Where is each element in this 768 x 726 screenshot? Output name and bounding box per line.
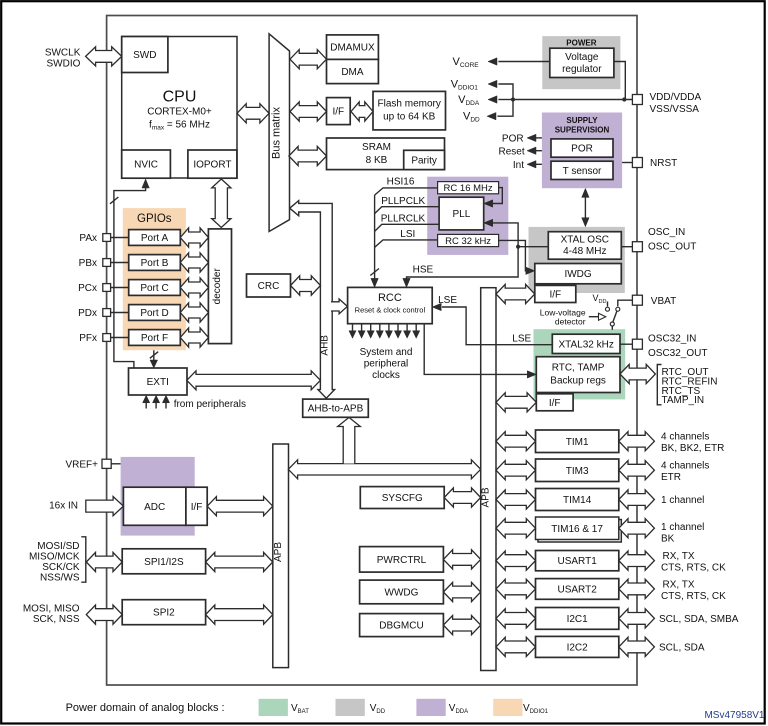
svg-text:up to 64 KB: up to 64 KB [383, 112, 436, 123]
svg-text:PLL: PLL [453, 209, 471, 220]
switch common contact [610, 322, 614, 326]
block XTAL32 kHz [552, 334, 620, 353]
block RCC [348, 287, 433, 323]
svg-text:I2C1: I2C1 [567, 614, 589, 625]
block TIM14 [536, 489, 619, 511]
svg-text:CTS, RTS, CK: CTS, RTS, CK [661, 591, 726, 602]
arrow into EXTI [150, 360, 158, 368]
arrow SPI1 to APB [206, 552, 273, 571]
svg-text:OSC32_OUT: OSC32_OUT [648, 348, 707, 359]
wire PAx pin [110, 237, 128, 239]
svg-text:SPI2: SPI2 [153, 608, 175, 619]
block PLL [439, 197, 484, 230]
arrow VDDIO1 [488, 80, 497, 87]
block XTAL OSC [548, 232, 621, 260]
text RCC [355, 292, 426, 315]
text GPIOs [137, 213, 172, 225]
block NVIC [122, 150, 171, 178]
wire VDD/VDDA pin rail [513, 99, 632, 101]
svg-text:TIM3: TIM3 [566, 466, 589, 477]
text CPU [147, 89, 212, 132]
arrow APB to TIM14 [496, 490, 536, 509]
svg-text:Bus matrix: Bus matrix [271, 107, 283, 159]
wire VDDIO1 branch [498, 84, 513, 100]
arrow RTC pins [620, 364, 655, 383]
text VREF+ [65, 459, 98, 470]
block DBGMCU [360, 614, 444, 637]
text decoder [212, 268, 223, 305]
arrow Reset out [527, 147, 536, 154]
block RC 32 kHz [438, 234, 499, 247]
svg-text:LSE: LSE [438, 295, 457, 306]
text VDD/VDDA pin [650, 92, 702, 115]
slash PortF EXTI [150, 352, 158, 359]
APB label left [273, 542, 284, 562]
slash clock bus [370, 269, 379, 276]
svg-text:VREF+: VREF+ [65, 459, 98, 470]
text Int label [513, 160, 524, 171]
wire PortF to EXTI [153, 350, 155, 361]
svg-text:Power domain of analog blocks: Power domain of analog blocks : [66, 702, 225, 714]
svg-text:SWDIO: SWDIO [47, 59, 81, 70]
text XTAL OSC [561, 235, 609, 258]
pin square OSC32 [632, 339, 642, 349]
svg-text:T sensor: T sensor [563, 166, 602, 177]
text TIM1 pins [661, 432, 724, 455]
VDDA domain supply supervision background [542, 113, 622, 189]
wire RC32 to IWDG [499, 240, 528, 270]
slash EXTI NVIC [110, 197, 118, 204]
svg-text:USART2: USART2 [558, 584, 598, 595]
svg-text:PLLRCLK: PLLRCLK [381, 213, 426, 224]
pin square VDD/VDDA [632, 95, 642, 105]
block PWRCTRL [360, 547, 444, 573]
arrow port 4 to decoder [180, 328, 208, 347]
svg-text:I/F: I/F [191, 502, 203, 513]
pin square NRST [632, 158, 642, 168]
svg-text:DBGMCU: DBGMCU [379, 621, 423, 632]
svg-text:MOSI/SD: MOSI/SD [37, 541, 79, 552]
arrow port 2 to decoder [180, 278, 208, 297]
legend VDD label [370, 703, 386, 715]
block SYSCFG [360, 487, 444, 509]
svg-text:AHB: AHB [320, 335, 331, 356]
text MSv47958V1 [704, 710, 764, 721]
wire HSI16 [375, 188, 438, 195]
pin square PDx [103, 309, 111, 317]
text POWER [566, 39, 596, 48]
chip boundary [107, 16, 637, 686]
svg-text:regulator: regulator [562, 64, 602, 75]
svg-text:IWDG: IWDG [564, 269, 591, 280]
svg-text:CORTEX-M0+: CORTEX-M0+ [147, 107, 212, 118]
legend VBAT label [291, 703, 309, 715]
wire HSE vertical [407, 223, 519, 279]
junction dot regulator rail [622, 97, 626, 101]
svg-text:I/F: I/F [549, 398, 561, 409]
wire OSC32 pin [620, 343, 632, 345]
block Port F [129, 330, 181, 346]
pin square VREF+ [102, 459, 111, 468]
text SUPPLY SUPERVISION [555, 116, 610, 135]
text Vcore [453, 56, 480, 69]
svg-text:1 channel: 1 channel [661, 522, 704, 533]
VDDIO1 domain GPIOs background [123, 208, 186, 350]
arrow bus to DMAMUX [290, 50, 327, 69]
wire PLLRCLK [375, 224, 440, 231]
svg-text:SYSCFG: SYSCFG [382, 493, 423, 504]
svg-text:VBAT: VBAT [651, 296, 676, 307]
wire VDD branch [497, 100, 513, 117]
svg-text:4-48 MHz: 4-48 MHz [563, 246, 606, 257]
arrow HSE into RCC [403, 278, 410, 287]
arrow IOPORT to decoder [212, 179, 231, 228]
text OSC32 pin [648, 334, 707, 360]
text TIM16 pins [661, 522, 704, 545]
block flash I/F [327, 98, 351, 125]
arrow HSE to PLL [484, 219, 493, 226]
block SRAM [327, 138, 445, 170]
block IWDG I/F [535, 285, 576, 302]
wire Int out [536, 163, 542, 165]
svg-text:POR: POR [502, 133, 524, 144]
arrow APB link to AHB-to-APB [338, 417, 361, 463]
arrow APB to IWDG I/F [496, 284, 535, 303]
legend VDDA label [449, 703, 468, 715]
wire PBx pin [110, 262, 128, 264]
svg-text:AHB-to-APB: AHB-to-APB [308, 404, 364, 415]
svg-text:SCL, SDA: SCL, SDA [659, 642, 705, 653]
svg-text:APB: APB [481, 487, 492, 507]
block ADC I/F [186, 487, 207, 525]
arrow APB to TIM3 [496, 461, 536, 480]
block decoder [208, 229, 231, 344]
wire XTAL OSC out [518, 246, 548, 248]
text HSE [413, 265, 434, 276]
pin square PFx [103, 334, 111, 342]
text SRAM [362, 142, 391, 166]
svg-text:PCx: PCx [78, 283, 97, 294]
arrow APB to I2C1 [496, 609, 536, 628]
arrow SPI2 to APB [206, 605, 273, 624]
block T sensor [551, 161, 613, 179]
svg-text:RX, TX: RX, TX [663, 551, 695, 562]
arrow VDD [487, 113, 496, 120]
VDD domain xtal osc background [529, 227, 625, 293]
block EXTI [129, 368, 188, 395]
text TIM3 pins [661, 461, 709, 484]
pin square VBAT [632, 295, 642, 305]
text OSC_IN pin [648, 227, 696, 253]
text from peripherals [174, 399, 246, 410]
text SPI2 pins [23, 604, 80, 626]
wire VREF+ pin [111, 463, 121, 465]
arrow APB to TIM16 [496, 519, 536, 538]
arrow APB to USART2 [496, 579, 536, 598]
arrow POR out [527, 134, 536, 141]
svg-text:HSI16: HSI16 [387, 177, 415, 188]
text Vdd [463, 111, 480, 124]
block DMAMUX [327, 35, 379, 60]
arrow USART1 pins [619, 551, 655, 570]
wire POR out [536, 137, 542, 139]
wire LSE [442, 307, 552, 345]
AHB label [320, 335, 331, 356]
block USART1 [536, 551, 619, 571]
block Flash memory [373, 91, 446, 129]
arrow PWRCTRL to APB [443, 550, 480, 569]
block WWDG [360, 580, 444, 604]
svg-text:CRC: CRC [258, 281, 280, 292]
arrow LSE into RCC [432, 303, 441, 310]
block DMA [327, 59, 379, 83]
block IOPORT [188, 150, 237, 178]
wire VBAT to switch [618, 300, 633, 306]
svg-text:RC 32 kHz: RC 32 kHz [445, 236, 491, 247]
wire RC16 to PLL [492, 188, 503, 204]
svg-text:4 channels: 4 channels [661, 432, 709, 443]
svg-text:System and: System and [360, 347, 413, 358]
svg-text:TIM14: TIM14 [563, 495, 592, 506]
pin square OSC [632, 242, 642, 252]
wire OSC pin [621, 246, 632, 248]
text I2C2 pins [659, 642, 705, 653]
svg-text:VDD/VDDA: VDD/VDDA [650, 92, 702, 103]
svg-text:OSC32_IN: OSC32_IN [648, 334, 696, 345]
block CRC [247, 274, 291, 297]
svg-text:Port D: Port D [140, 308, 168, 319]
svg-text:I/F: I/F [549, 289, 561, 300]
legend VDDA square [416, 699, 445, 716]
svg-text:OSC_IN: OSC_IN [648, 227, 685, 238]
svg-text:PFx: PFx [79, 333, 97, 344]
arrow SWCLK SWDIO [86, 47, 122, 66]
block voltage regulator [550, 48, 614, 77]
svg-text:XTAL OSC: XTAL OSC [561, 235, 609, 246]
arrow I2C2 pins [619, 637, 655, 656]
svg-text:HSE: HSE [413, 265, 434, 276]
svg-text:1 channel: 1 channel [661, 495, 704, 506]
APB bus bar left [273, 444, 289, 668]
legend VDD square [336, 699, 365, 716]
block IWDG [535, 264, 622, 284]
block TIM1 [536, 430, 619, 453]
svg-text:from peripherals: from peripherals [174, 399, 246, 410]
wire PLLPCLK [375, 207, 440, 214]
svg-text:BK, BK2, ETR: BK, BK2, ETR [661, 443, 724, 454]
block Port D [129, 305, 181, 321]
svg-text:LSE: LSE [512, 334, 531, 345]
svg-text:RC 16 MHz: RC 16 MHz [444, 183, 493, 194]
junction dot HSE [516, 245, 520, 249]
legend VBAT square [259, 699, 288, 716]
arrow into IWDG [526, 267, 535, 274]
pin square PAx [103, 234, 111, 242]
svg-text:PDx: PDx [78, 308, 97, 319]
svg-text:BK: BK [661, 534, 675, 545]
svg-text:RX, TX: RX, TX [663, 579, 695, 590]
arrow I/F to flash [351, 102, 373, 121]
svg-text:Parity: Parity [411, 155, 437, 166]
block RTC I/F [536, 394, 573, 411]
arrow SPI1 pins [86, 552, 122, 571]
arrow APB link channel [288, 460, 480, 479]
svg-text:ETR: ETR [661, 472, 681, 483]
svg-text:SCL, SDA, SMBA: SCL, SDA, SMBA [659, 614, 739, 625]
svg-text:GPIOs: GPIOs [137, 213, 172, 225]
block TIM16 and 17 [536, 517, 622, 542]
svg-text:4 channels: 4 channels [661, 461, 709, 472]
block USART2 [536, 579, 619, 600]
arrow VDDA [488, 96, 513, 103]
svg-text:Port C: Port C [140, 283, 168, 294]
text flash [378, 99, 441, 123]
svg-text:DMAMUX: DMAMUX [330, 43, 375, 54]
text Vdd switch [593, 293, 607, 305]
legend VDDIO1 square [493, 699, 522, 716]
text USART1 pins [661, 551, 726, 574]
svg-text:TAMP_IN: TAMP_IN [662, 395, 705, 406]
svg-text:CTS, RTS, CK: CTS, RTS, CK [661, 563, 726, 574]
block RTC TAMP [536, 357, 620, 393]
svg-text:Voltage: Voltage [565, 52, 599, 63]
block RC 16 MHz [438, 182, 499, 195]
svg-text:SWD: SWD [133, 50, 156, 61]
arrow APB to I2C2 [496, 637, 536, 656]
switch contact VBAT [616, 307, 620, 311]
text system clocks [360, 347, 413, 381]
text GPIO pins [78, 233, 97, 344]
wire switch to backup domain [611, 326, 613, 330]
svg-text:Reset: Reset [498, 146, 524, 157]
text LSI [400, 229, 415, 240]
svg-text:clocks: clocks [372, 370, 400, 381]
wire Reset out [536, 150, 542, 152]
arrow EXTI to AHB [187, 371, 321, 390]
low-voltage detector arrow [589, 313, 606, 320]
text low-voltage detector [540, 308, 586, 327]
arrow TIM16 pins [619, 519, 655, 538]
arrow TIM14 pins [619, 490, 655, 509]
arrow port 3 to decoder [180, 303, 208, 322]
arrow ADC to APB [207, 497, 273, 516]
block Parity [404, 150, 445, 169]
switch contact VDD [606, 307, 610, 311]
text Reset label [498, 146, 524, 157]
svg-text:APB: APB [273, 542, 284, 562]
text PLLRCLK [381, 213, 426, 224]
arrow 16x IN [86, 497, 124, 516]
svg-text:SCK, NSS: SCK, NSS [33, 614, 80, 625]
wire NRST pin [622, 162, 632, 164]
wire RCC to RTC [424, 324, 528, 375]
svg-text:ADC: ADC [144, 502, 165, 513]
svg-text:IOPORT: IOPORT [193, 160, 231, 171]
arrow AHB to RCC [331, 299, 347, 314]
text Vdda [458, 94, 480, 107]
junction dot vdd fan [511, 97, 515, 101]
svg-text:SCK/CK: SCK/CK [42, 562, 80, 573]
arrow into NVIC [142, 179, 149, 188]
wire PDx pin [110, 312, 128, 314]
text RTC pins [662, 367, 718, 406]
block ADC [123, 487, 185, 525]
arrow APB to TIM1 [496, 432, 536, 451]
text VBAT pin [651, 296, 676, 307]
svg-text:NVIC: NVIC [134, 160, 158, 171]
block I2C1 [536, 608, 619, 630]
text SWCLK SWDIO [45, 48, 81, 70]
wire LSI [375, 240, 438, 248]
svg-text:TIM16 & 17: TIM16 & 17 [551, 524, 603, 535]
text LSE 2 [512, 334, 531, 345]
svg-text:I/F: I/F [333, 107, 345, 118]
switch blade [613, 311, 617, 322]
bracket RTC pins [657, 365, 661, 405]
wire PFx pin [110, 337, 128, 339]
VDDA domain ADC background [121, 457, 195, 536]
svg-text:Reset & clock control: Reset & clock control [355, 306, 426, 315]
arrow clock bus into RCC [371, 278, 378, 287]
block SPI1/I2S [122, 549, 205, 574]
svg-text:Port A: Port A [141, 233, 169, 244]
arrow port 1 to decoder [180, 253, 208, 272]
block SPI2 [122, 600, 205, 625]
block TIM3 [536, 459, 619, 482]
block Port A [129, 230, 181, 246]
svg-text:PWRCTRL: PWRCTRL [377, 555, 427, 566]
svg-text:LSI: LSI [400, 229, 415, 240]
svg-text:CPU: CPU [163, 89, 197, 106]
svg-text:VSS/VSSA: VSS/VSSA [650, 104, 700, 115]
arrows from peripherals into EXTI [143, 395, 170, 408]
svg-text:SWCLK: SWCLK [45, 48, 81, 59]
text LSE 1 [438, 295, 457, 306]
svg-text:MSv47958V1: MSv47958V1 [704, 710, 764, 721]
svg-text:SUPERVISION: SUPERVISION [555, 126, 610, 135]
text SPI1 pins [29, 541, 80, 584]
arrow port 0 to decoder [180, 228, 208, 247]
arrow DBGMCU to APB [443, 616, 480, 635]
arrow TIM1 pins [619, 432, 655, 451]
svg-text:WWDG: WWDG [385, 587, 419, 598]
wire VDD to switch [607, 302, 609, 307]
APB bus bar right [481, 288, 496, 671]
text voltage regulator [562, 52, 602, 75]
text HSI16 [387, 177, 415, 188]
svg-text:I2C2: I2C2 [567, 642, 589, 653]
svg-text:XTAL32 kHz: XTAL32 kHz [558, 339, 613, 350]
svg-text:SPI1/I2S: SPI1/I2S [144, 557, 184, 568]
text I2C1 pins [659, 614, 739, 625]
svg-text:peripheral: peripheral [364, 359, 408, 370]
arrow USART2 pins [619, 579, 655, 598]
svg-text:Flash memory: Flash memory [378, 99, 441, 110]
svg-text:NRST: NRST [650, 158, 677, 169]
arrow supply to xtal [582, 188, 589, 226]
text TIM14 pins [661, 495, 704, 506]
svg-text:USART1: USART1 [558, 556, 598, 567]
svg-text:Int: Int [513, 160, 524, 171]
arrow Int out [527, 161, 536, 168]
wire Vcore from regulator [498, 61, 549, 63]
text Vddio1 [451, 79, 479, 92]
svg-text:SRAM: SRAM [362, 142, 391, 153]
VDDA domain PLL background [427, 177, 508, 255]
bracket SPI1 pins [81, 537, 86, 582]
arrow WWDG to APB [443, 582, 480, 601]
VDD domain power background [542, 36, 620, 89]
